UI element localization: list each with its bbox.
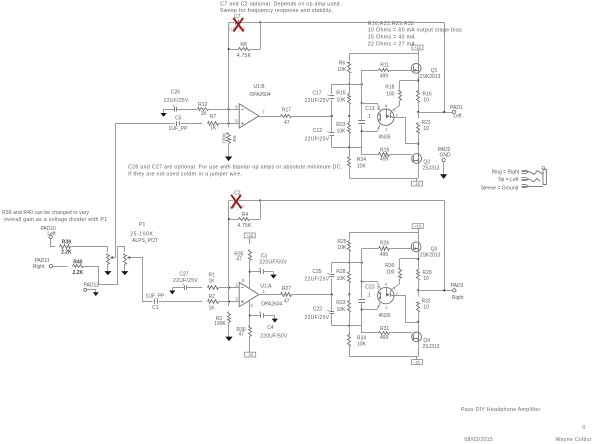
U1:A pin 1 label bbox=[263, 289, 266, 294]
wire R4 right vertical bbox=[260, 201, 262, 220]
resistor R7 label bbox=[210, 114, 217, 120]
wire C7 row left bbox=[229, 22, 235, 24]
capacitor C13 label bbox=[365, 106, 374, 120]
svg-text:10K: 10K bbox=[357, 163, 367, 169]
capacitor C27 label bbox=[173, 271, 198, 284]
svg-text:R28: R28 bbox=[336, 269, 345, 275]
resistor R25 label bbox=[337, 239, 347, 251]
pad PAD2 label bbox=[438, 147, 451, 158]
svg-text:R19: R19 bbox=[380, 148, 389, 154]
jack J1 body bbox=[543, 169, 546, 184]
wire C3 to ground bbox=[263, 272, 273, 275]
wire R6 to node bbox=[349, 73, 351, 84]
capacitor C7 value bbox=[228, 27, 245, 32]
note: R39/R40 gain line 1 bbox=[2, 210, 89, 216]
svg-text:15 Ohms = 40 mA: 15 Ohms = 40 mA bbox=[368, 35, 416, 41]
pad PAD1 bbox=[452, 110, 455, 113]
optocoupler U3 pin5 label bbox=[377, 284, 380, 289]
svg-text:1K: 1K bbox=[210, 126, 217, 132]
svg-text:100: 100 bbox=[386, 270, 395, 276]
wire R2 to pin3 node bbox=[218, 301, 239, 303]
node pin2 junction bbox=[228, 287, 230, 289]
optocoupler U3 pin2b label bbox=[385, 305, 388, 310]
svg-text:10K: 10K bbox=[336, 129, 346, 135]
wire pin8 node to C3 bbox=[250, 271, 261, 273]
svg-text:C7 and C2 optional. Depends on: C7 and C2 optional. Depends on op amp us… bbox=[220, 1, 341, 7]
wire C13 to opto pin4 bbox=[362, 124, 381, 132]
wire pot2 wiper to C1 row bbox=[133, 258, 153, 302]
resistor R26 value 499 bbox=[380, 252, 389, 258]
transistor Q3 label bbox=[420, 247, 441, 259]
wire R29 to output node bbox=[418, 280, 420, 290]
resistor R19 label bbox=[380, 148, 389, 154]
svg-text:C25: C25 bbox=[312, 269, 321, 275]
ground at C3 bbox=[270, 275, 276, 279]
wire output to PAD1 bbox=[418, 112, 452, 114]
capacitor C23 label bbox=[365, 284, 374, 298]
capacitor C12 label bbox=[305, 128, 330, 142]
svg-text:1K: 1K bbox=[208, 305, 215, 311]
pad PAD3 label bbox=[451, 283, 464, 301]
wire R36 to -15 bbox=[249, 336, 251, 352]
svg-text:Pass DIY Headphone Amplifier: Pass DIY Headphone Amplifier bbox=[461, 407, 541, 413]
resistor R15 label bbox=[336, 91, 346, 104]
resistor R16 bbox=[417, 91, 420, 103]
resistor R8 value 4.75K bbox=[237, 53, 252, 59]
jack J1 tip contact bbox=[530, 178, 541, 182]
wire R4 to right vertical bbox=[250, 219, 261, 221]
svg-text:2.2K: 2.2K bbox=[61, 249, 72, 255]
transistor Q2 2SJ313 bbox=[412, 154, 422, 164]
svg-text:.1: .1 bbox=[367, 292, 371, 298]
svg-text:1K: 1K bbox=[208, 279, 215, 285]
wire node row y84 bbox=[332, 84, 362, 86]
node pin4 branch bbox=[249, 314, 251, 316]
node C17/C12 mid bbox=[331, 115, 333, 117]
wire R34 top bbox=[349, 326, 351, 335]
resistor R12 value 1K bbox=[201, 111, 208, 117]
capacitor C2 label bbox=[234, 191, 241, 197]
wire rail to R25 bbox=[349, 232, 351, 240]
capacitor C7 label bbox=[234, 14, 241, 20]
svg-text:R4: R4 bbox=[242, 212, 249, 218]
wire bottom stage bottom rail bbox=[349, 356, 418, 358]
svg-text:22UF/25V: 22UF/25V bbox=[173, 278, 198, 284]
note: C26/C27 optional line 1 bbox=[128, 164, 342, 170]
power -15 top stage bbox=[412, 178, 423, 186]
svg-text:47: 47 bbox=[284, 120, 290, 126]
pad PAD10 bbox=[49, 235, 52, 238]
svg-text:Q2: Q2 bbox=[423, 159, 430, 165]
resistor R8 label bbox=[240, 42, 247, 48]
wire R19 to Q2 gate bbox=[390, 154, 412, 156]
svg-text:C22: C22 bbox=[313, 307, 322, 313]
node Q4 source junction bbox=[417, 321, 419, 323]
wire R8 to right vertical bbox=[250, 49, 261, 51]
wire C1 to R2 bbox=[159, 301, 202, 303]
capacitor C17 bbox=[327, 95, 334, 99]
svg-text:100: 100 bbox=[386, 91, 395, 97]
resistor R34 label bbox=[357, 335, 367, 347]
svg-text:10 Ohms = 60 mA output stage b: 10 Ohms = 60 mA output stage bias bbox=[368, 28, 462, 34]
svg-text:C17: C17 bbox=[312, 90, 321, 96]
P1 wiper 2 arrow bbox=[127, 256, 133, 259]
wire R17 to mid node bbox=[292, 116, 332, 118]
wire bottom stage top rail bbox=[349, 232, 418, 234]
resistor R22 label bbox=[422, 120, 431, 132]
svg-text:22UF/25V: 22UF/25V bbox=[305, 315, 330, 321]
resistor R15 bbox=[348, 94, 351, 105]
node C23 top bbox=[361, 281, 363, 283]
resistor R40 value 2.2K bbox=[73, 270, 84, 276]
node Q2 source junction bbox=[417, 143, 419, 145]
potentiometer P1 section 2 bbox=[124, 252, 127, 272]
ground below pot2 bbox=[121, 271, 128, 275]
svg-text:4N35: 4N35 bbox=[379, 135, 391, 141]
pad PAD12 bbox=[84, 288, 87, 291]
wire C7 row right bbox=[240, 22, 261, 24]
svg-text:+15: +15 bbox=[414, 224, 421, 229]
capacitor C26 label bbox=[164, 90, 189, 105]
resistor R30 label bbox=[385, 263, 394, 276]
wire C2 row left bbox=[229, 200, 233, 202]
optocoupler U2 pin2 label bbox=[396, 113, 399, 118]
wire C23 to opto pin4 bbox=[362, 302, 381, 309]
resistor R23 bbox=[348, 123, 351, 134]
svg-text:Sleeve = Ground: Sleeve = Ground bbox=[481, 186, 519, 192]
capacitor C3 label bbox=[259, 254, 287, 266]
wire R15 to mid node bbox=[349, 104, 351, 116]
svg-text:OPA2604: OPA2604 bbox=[261, 302, 283, 308]
svg-text:C13: C13 bbox=[365, 106, 374, 112]
pad PAD3 bbox=[453, 289, 456, 292]
svg-text:100K: 100K bbox=[221, 132, 227, 144]
svg-text:R25: R25 bbox=[337, 239, 346, 245]
wire opto pin2 to output node bottom bbox=[395, 296, 419, 323]
wire feedback vertical left bbox=[228, 22, 230, 123]
U1:B pin 5 label bbox=[235, 118, 238, 123]
power +15 bottom stage bbox=[412, 224, 423, 232]
red X over C7 bbox=[233, 18, 243, 32]
svg-text:R24: R24 bbox=[357, 157, 366, 163]
transistor Q1 label bbox=[420, 68, 441, 80]
pad PAD10 label bbox=[40, 226, 56, 237]
svg-text:R39: R39 bbox=[62, 240, 71, 246]
svg-text:Right: Right bbox=[33, 264, 45, 270]
svg-text:2SJ313: 2SJ313 bbox=[423, 166, 440, 172]
potentiometer P1 section 1 bbox=[107, 247, 110, 271]
resistor R40 bbox=[73, 265, 84, 268]
wire C26 to R12 bbox=[177, 109, 197, 111]
label Tip = Left bbox=[498, 177, 519, 183]
svg-text:4.75K: 4.75K bbox=[237, 53, 252, 59]
wire R30 to opto pin1 bbox=[392, 279, 400, 289]
resistor R12 label bbox=[198, 102, 207, 108]
node R15/R23 mid bbox=[348, 115, 350, 117]
wire R24 to bottom rail bbox=[349, 168, 351, 178]
svg-text:R6: R6 bbox=[339, 60, 346, 66]
svg-text:Wayne Colburn: Wayne Colburn bbox=[556, 437, 592, 443]
node R18 tap bbox=[417, 79, 419, 81]
svg-text:10K: 10K bbox=[357, 342, 367, 348]
svg-text:2SK2013: 2SK2013 bbox=[420, 253, 441, 259]
svg-text:47: 47 bbox=[284, 299, 290, 305]
wire to R31 bbox=[362, 332, 379, 334]
wire C13 vertical top bbox=[361, 103, 363, 120]
wire feedback vertical left bottom bbox=[228, 201, 230, 302]
node C13 top bbox=[361, 102, 363, 104]
svg-text:Right: Right bbox=[452, 295, 464, 301]
svg-text:220UF/50V: 220UF/50V bbox=[260, 333, 288, 339]
note: 10 ohms bias bbox=[368, 28, 462, 34]
svg-text:R33: R33 bbox=[336, 300, 345, 306]
wire Q1 source down bbox=[418, 73, 420, 92]
node pin8 branch bbox=[249, 271, 251, 273]
optocoupler U3 label 4N35 bbox=[379, 313, 391, 319]
svg-text:C12: C12 bbox=[313, 128, 322, 134]
resistor R35 label bbox=[234, 251, 243, 262]
wire R23 to lower node bbox=[349, 134, 351, 148]
capacitor C1 bbox=[155, 299, 158, 303]
note: bias resistor list bbox=[368, 21, 414, 27]
wire Q2 drain to bottom rail bbox=[418, 163, 420, 178]
resistor R31 bbox=[379, 332, 390, 335]
wire R32 to Q4 bbox=[418, 312, 420, 332]
node R30 tap bbox=[417, 258, 419, 260]
resistor R25 bbox=[348, 241, 351, 252]
resistor R17 bbox=[281, 115, 292, 118]
svg-text:R23: R23 bbox=[336, 122, 345, 128]
svg-text:08/03/2015: 08/03/2015 bbox=[464, 437, 493, 443]
wire C13 vertical bottom bbox=[361, 125, 363, 147]
wire C17 top bbox=[331, 84, 333, 94]
resistor R29 label bbox=[423, 270, 432, 282]
wire feedback bottom to output bbox=[260, 200, 444, 202]
svg-text:R18: R18 bbox=[385, 85, 394, 91]
power +15 top stage bbox=[412, 45, 423, 54]
resistor R26 bbox=[379, 247, 390, 251]
potentiometer P1 label bbox=[130, 222, 158, 244]
wire R11 to Q1 gate bbox=[390, 70, 412, 72]
svg-text:.1: .1 bbox=[367, 114, 371, 120]
resistor R24 label bbox=[357, 157, 367, 169]
resistor R1 label bbox=[208, 272, 215, 284]
svg-text:P1: P1 bbox=[139, 222, 145, 228]
capacitor C1 value 1UF_PP bbox=[146, 293, 166, 299]
resistor R29 bbox=[417, 270, 420, 281]
svg-text:R32: R32 bbox=[422, 298, 431, 304]
op-amp U1:B bbox=[239, 104, 259, 128]
wire R1 to pin2 node bbox=[218, 287, 239, 289]
wire C25 to mid node bbox=[331, 278, 333, 294]
resistor R8 bbox=[239, 48, 250, 51]
ground below R3 bbox=[225, 337, 232, 342]
transistor Q4 label bbox=[423, 338, 440, 350]
power -15 opamp bbox=[245, 352, 256, 357]
resistor R26 label bbox=[380, 241, 389, 247]
svg-text:1UF_PP: 1UF_PP bbox=[146, 293, 166, 299]
svg-text:22UF/25V: 22UF/25V bbox=[305, 98, 330, 104]
node R25/R28 junction bbox=[348, 262, 350, 264]
capacitor C1 label bbox=[152, 305, 159, 311]
transistor Q2 label bbox=[423, 159, 440, 171]
U1:A pin 2 label bbox=[235, 283, 238, 288]
wire R16 to output node bbox=[418, 102, 420, 112]
svg-text:1UF_PP: 1UF_PP bbox=[169, 126, 189, 132]
svg-text:22UF/25V: 22UF/25V bbox=[305, 277, 330, 283]
svg-text:1UF_PP: 1UF_PP bbox=[227, 204, 244, 209]
jack J1 ring terminal bbox=[522, 170, 530, 173]
svg-text:R17: R17 bbox=[282, 108, 291, 114]
U1:B pin 6 label bbox=[235, 104, 238, 109]
node C13 bottom bbox=[361, 130, 363, 132]
note: C7/C2 optional line 2 bbox=[220, 8, 333, 14]
wire feedback drop to output node bbox=[444, 22, 446, 112]
node R8 left bbox=[228, 48, 230, 50]
node pin3 junction bbox=[228, 300, 230, 302]
power -15 bottom stage bbox=[412, 356, 423, 364]
svg-text:10K: 10K bbox=[336, 98, 346, 104]
resistor R4 bbox=[239, 218, 250, 221]
resistor R6 bbox=[348, 63, 351, 73]
pad PAD2 bbox=[442, 158, 445, 161]
wire R8 left bbox=[229, 49, 239, 51]
wire bottom rail bbox=[349, 178, 418, 180]
wire R30 tap bbox=[400, 259, 419, 268]
svg-text:10K: 10K bbox=[337, 67, 347, 73]
wire R31 to Q4 gate bbox=[390, 332, 412, 334]
svg-text:R31: R31 bbox=[380, 326, 389, 332]
svg-text:499: 499 bbox=[380, 73, 389, 79]
resistor R30 bbox=[399, 268, 402, 279]
wire R28 to mid node bbox=[349, 283, 351, 295]
wire to R19 bbox=[362, 154, 379, 156]
node feedback tap at output bottom bbox=[443, 289, 445, 291]
wire node to R26 bbox=[362, 249, 379, 282]
svg-text:10: 10 bbox=[423, 305, 429, 311]
capacitor C22 label bbox=[305, 307, 330, 321]
op-amp U1:B label bbox=[249, 84, 271, 98]
wire R25 to node bbox=[349, 251, 351, 262]
wire top rail bbox=[349, 53, 418, 55]
svg-text:22UF/25V: 22UF/25V bbox=[305, 136, 330, 142]
resistor R17 label bbox=[282, 108, 291, 114]
svg-text:R1: R1 bbox=[208, 272, 215, 278]
optocoupler U2 pin1b label bbox=[385, 127, 388, 132]
wire R15 top bbox=[349, 84, 351, 93]
svg-text:Ring = Right: Ring = Right bbox=[492, 170, 520, 176]
svg-text:C26 and C27 are optional. For: C26 and C27 are optional. For use with b… bbox=[128, 164, 342, 170]
pad PAD11 label bbox=[33, 258, 50, 270]
label Sleeve = Ground bbox=[481, 186, 519, 192]
svg-text:22 Ohms = 27 mA: 22 Ohms = 27 mA bbox=[368, 41, 416, 47]
wire feedback top to output bbox=[260, 22, 444, 24]
resistor R33 bbox=[348, 301, 351, 313]
U1:A pin 3 label bbox=[235, 296, 238, 301]
wire gnd to C27 bbox=[172, 287, 184, 289]
resistor R39 bbox=[60, 245, 71, 249]
jack J1 sleeve lead bbox=[530, 186, 543, 188]
wire Q1 drain to rail bbox=[418, 54, 420, 64]
wire R18 to opto pin1 bbox=[392, 100, 400, 110]
wire lower node to R19 corner bbox=[349, 147, 361, 154]
U1:A pin 8 label bbox=[242, 278, 245, 283]
svg-text:-15: -15 bbox=[414, 360, 420, 365]
wire C27 to R1 bbox=[187, 287, 203, 289]
svg-text:R39 and R40 can be changed to: R39 and R40 can be changed to vary bbox=[2, 210, 89, 216]
optocoupler U3 pin6 label bbox=[385, 282, 388, 287]
wire C2 row right bbox=[239, 200, 261, 202]
wire R23 top bbox=[349, 116, 351, 123]
svg-text:Left: Left bbox=[453, 114, 462, 120]
svg-text:C27: C27 bbox=[179, 271, 188, 277]
node R33/R34 junction bbox=[348, 325, 350, 327]
svg-text:R16,R22,R29,R32: R16,R22,R29,R32 bbox=[368, 21, 414, 27]
resistor R17 value 47 bbox=[284, 120, 290, 126]
note: 22 ohms bias bbox=[368, 41, 416, 47]
wire pin7 to R17 bbox=[259, 116, 281, 118]
svg-text:C1: C1 bbox=[152, 305, 159, 311]
capacitor C26 bbox=[173, 106, 177, 112]
svg-text:Tip = Left: Tip = Left bbox=[498, 177, 519, 183]
resistor R3 label bbox=[214, 316, 226, 327]
note: 15 ohms bias bbox=[368, 35, 416, 41]
wire C17 to mid node bbox=[331, 100, 333, 116]
svg-text:R27: R27 bbox=[282, 286, 291, 292]
title: Pass DIY Headphone Amplifier bbox=[461, 407, 541, 413]
node at R11 branch bbox=[361, 83, 363, 85]
resistor R31 label bbox=[380, 326, 389, 332]
node pin6 junction bbox=[228, 108, 230, 110]
note: C7/C2 optional line 1 bbox=[220, 1, 341, 7]
svg-text:10K: 10K bbox=[336, 276, 346, 282]
resistor R27 label bbox=[282, 286, 291, 292]
wire rail to R6 bbox=[349, 54, 351, 62]
op-amp U1:A bbox=[239, 282, 259, 306]
op-amp U1:A label bbox=[260, 284, 282, 308]
transistor Q3 2SK2013 bbox=[411, 242, 421, 252]
svg-text:R5: R5 bbox=[232, 135, 238, 141]
ground below R5 bbox=[225, 157, 232, 162]
wire pin1 to R27 bbox=[259, 294, 281, 296]
transistor Q4 2SJ313 bbox=[412, 332, 422, 342]
resistor R2 bbox=[208, 300, 219, 304]
optocoupler U2 4N35 bbox=[378, 109, 394, 125]
svg-text:220UF/50V: 220UF/50V bbox=[259, 259, 287, 265]
node feedback top right bbox=[259, 21, 261, 23]
wire PAD12 to ground bbox=[87, 290, 96, 293]
resistor R16 label bbox=[423, 91, 432, 103]
wire pin4 down bbox=[249, 300, 251, 326]
wire C12 to lower node row bbox=[332, 135, 350, 147]
wire C23 vertical top bbox=[361, 282, 363, 299]
resistor R2 value 1K bbox=[208, 305, 215, 311]
svg-text:2.2K: 2.2K bbox=[73, 270, 84, 276]
wire R18 tap bbox=[400, 81, 419, 89]
wire R39 to P1 pot1 top bbox=[71, 246, 108, 248]
svg-text:If they are not used solder in: If they are not used solder in a jumper … bbox=[128, 171, 242, 177]
ground at C4 bbox=[272, 319, 278, 323]
ground stub at C27 bbox=[169, 288, 175, 295]
resistor R23 label bbox=[336, 122, 346, 135]
resistor R19 value 499 bbox=[380, 156, 389, 162]
P1 wiper 1 arrow bbox=[110, 256, 116, 259]
label Ring = Right bbox=[492, 170, 520, 176]
note: R39/R40 gain line 2 bbox=[4, 217, 107, 223]
capacitor C17 label bbox=[305, 90, 330, 104]
pad PAD12 label bbox=[84, 283, 100, 289]
optocoupler U2 pin6 label bbox=[385, 103, 388, 108]
